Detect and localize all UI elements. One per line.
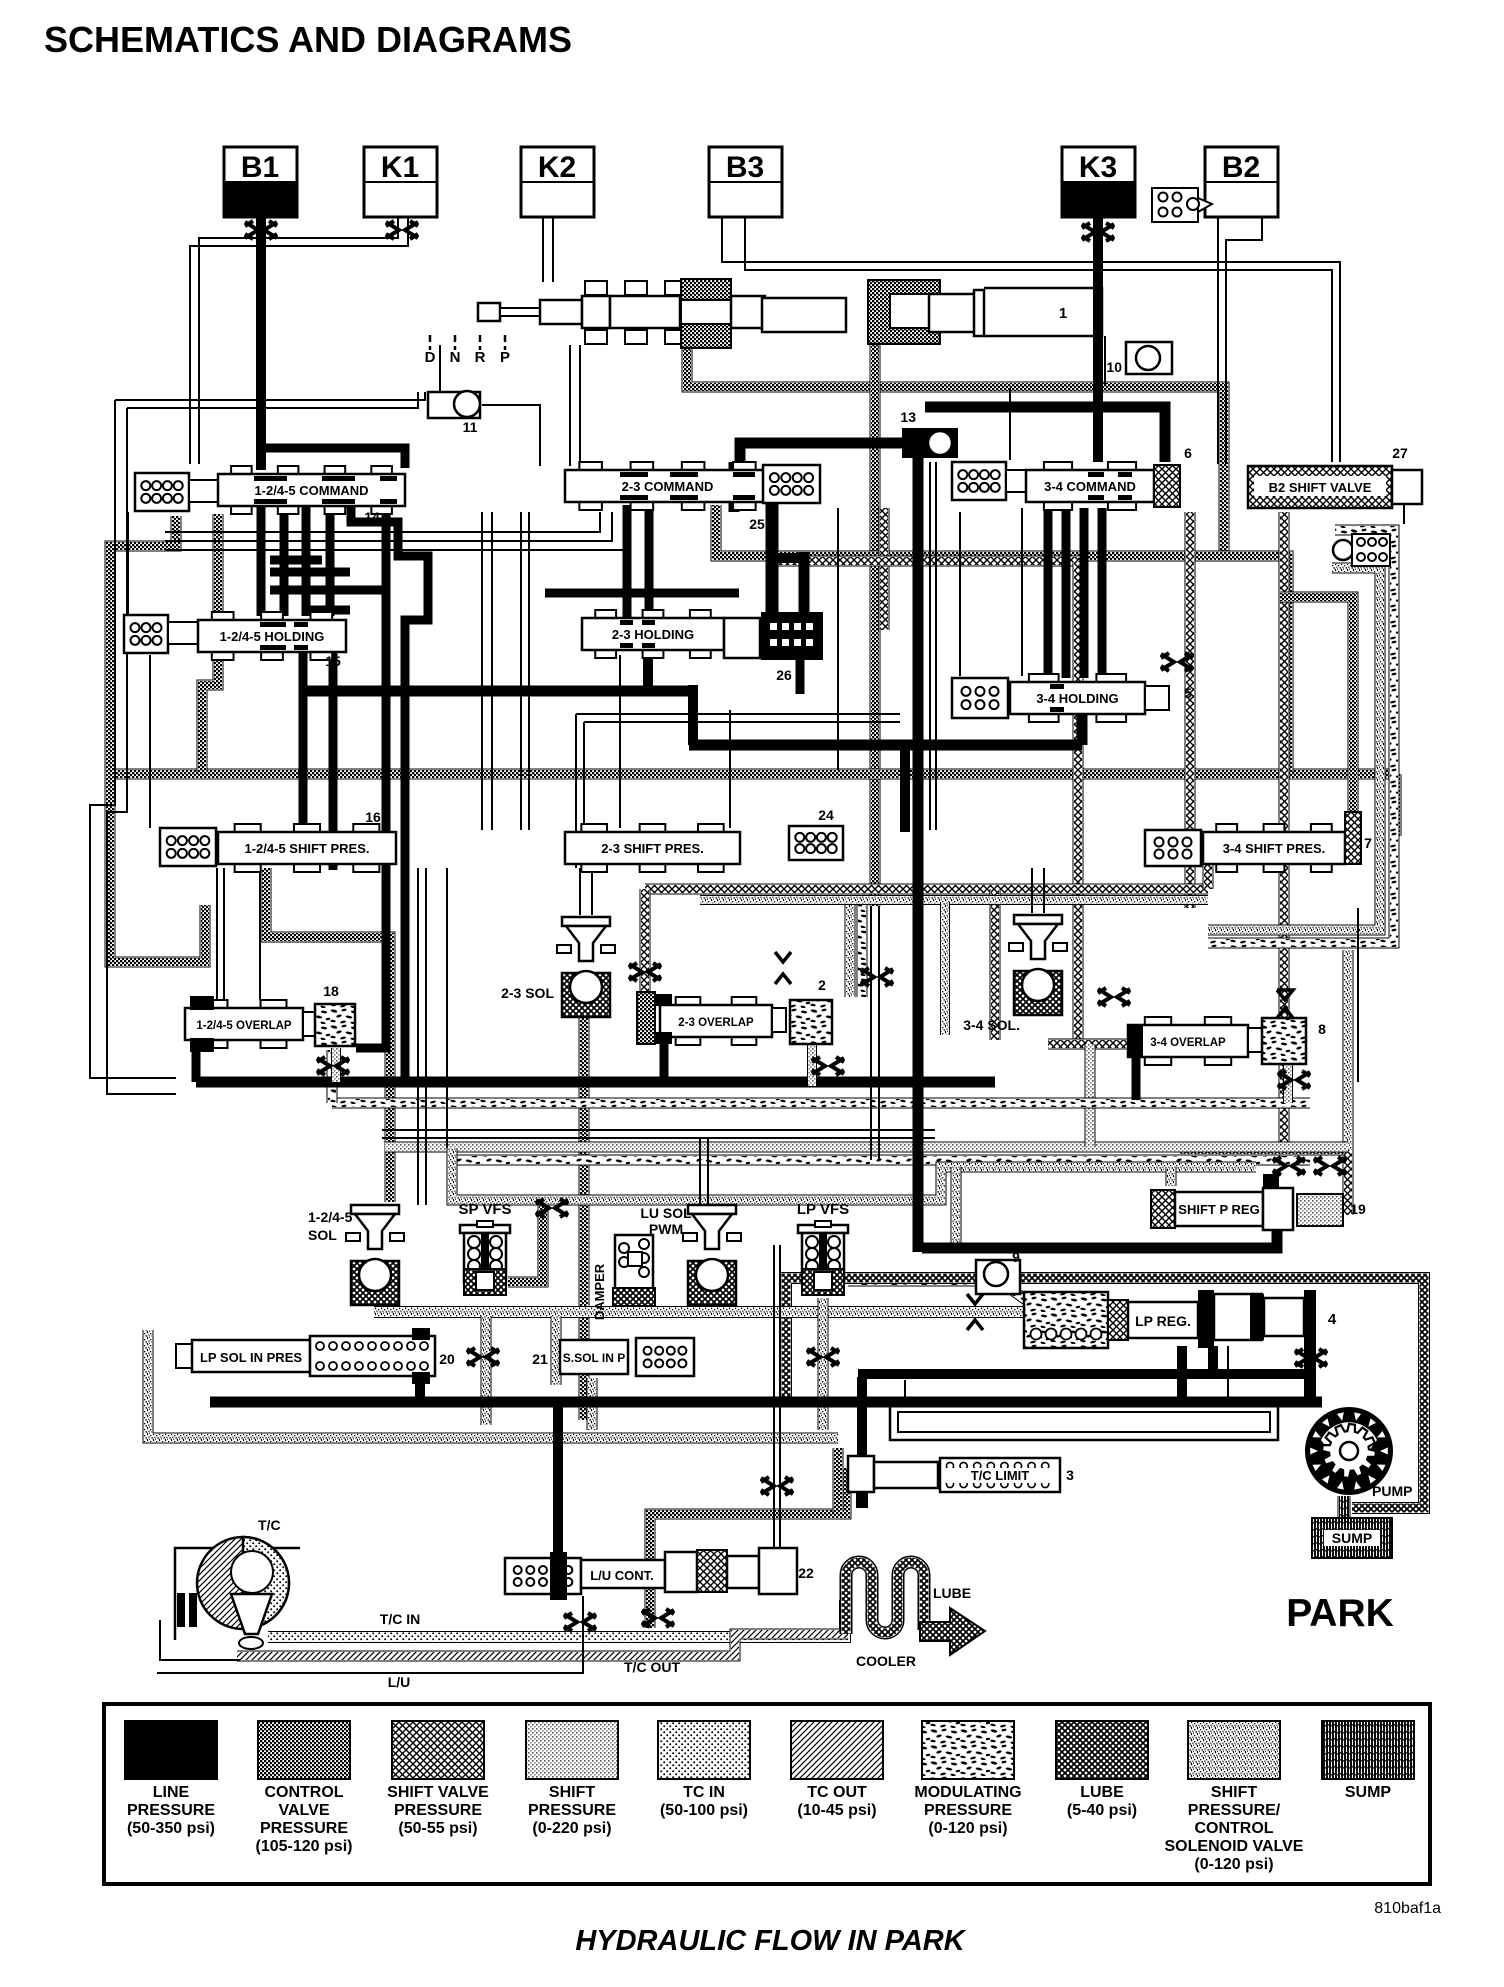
svg-text:LINE: LINE (153, 1784, 190, 1801)
wire thin pairs above solenoid funnels (580, 868, 1044, 986)
svg-text:PRESSURE: PRESSURE (127, 1802, 215, 1819)
check ball 9 (967, 1249, 1020, 1330)
legend swatch CONTROL (256, 1721, 353, 1855)
svg-text:4: 4 (1328, 1311, 1337, 1328)
legend swatch SHIFT VALVE (387, 1721, 489, 1837)
valve 1-2/4-5 OVERLAP (185, 983, 355, 1075)
figure code (1374, 1900, 1441, 1917)
svg-text:S.SOL IN P: S.SOL IN P (563, 1351, 625, 1365)
svg-text:T/C IN: T/C IN (380, 1611, 420, 1627)
orifice on svp left vertical (629, 963, 661, 981)
wire gray verticals below solenoids (486, 1298, 823, 1430)
svg-text:3-4 OVERLAP: 3-4 OVERLAP (1150, 1037, 1226, 1049)
svg-text:PUMP: PUMP (1372, 1483, 1412, 1499)
valve 3-4 HOLDING (952, 653, 1193, 722)
valve 2-3 COMMAND (565, 462, 820, 532)
svg-text:P: P (500, 349, 510, 366)
wire shift-valve-pressure right vertical (1279, 512, 1290, 1150)
svg-text:2-3 SHIFT PRES.: 2-3 SHIFT PRES. (601, 841, 704, 856)
svg-text:8: 8 (1318, 1021, 1326, 1037)
caption (575, 1925, 966, 1957)
svg-text:1: 1 (1059, 305, 1067, 322)
wire centre thin verticals (620, 462, 960, 830)
valve 3-4 COMMAND (952, 445, 1192, 510)
clutch B2 (1205, 147, 1278, 217)
wire manual valve to junction 11 (440, 336, 1105, 466)
PARK label (1286, 1592, 1394, 1635)
valve 2-3 OVERLAP (637, 952, 844, 1075)
svg-text:(10-45 psi): (10-45 psi) (797, 1802, 876, 1819)
svg-text:LP REG.: LP REG. (1135, 1313, 1191, 1329)
cooler (846, 1562, 985, 1669)
svg-text:L/U: L/U (388, 1674, 411, 1690)
svg-text:T/C: T/C (258, 1517, 281, 1533)
svg-text:TC IN: TC IN (683, 1784, 725, 1801)
valve L/U CONT (505, 1548, 814, 1631)
svg-text:2: 2 (818, 977, 826, 993)
svg-text:25: 25 (749, 516, 765, 532)
svg-text:14: 14 (364, 509, 380, 525)
valve LP SOL IN PRES (176, 1328, 499, 1384)
svg-text:3-4 SHIFT PRES.: 3-4 SHIFT PRES. (1223, 841, 1326, 856)
legend swatch SUMP (1322, 1721, 1414, 1801)
svg-text:24: 24 (818, 807, 834, 823)
svg-text:SOL: SOL (308, 1227, 337, 1243)
svg-text:27: 27 (1392, 445, 1408, 461)
legend swatch LINE (125, 1721, 217, 1837)
solenoid 1-2/4-5 SOL (308, 1205, 404, 1305)
wire gray solenoid supply manifold (374, 1306, 1060, 1318)
clutch K2 (521, 147, 594, 217)
svg-text:PRESSURE: PRESSURE (394, 1802, 482, 1819)
wire shift-pressure light horizontal (385, 1044, 1348, 1147)
svg-text:11: 11 (463, 419, 478, 435)
wire control-pressure right frame (1280, 597, 1353, 1150)
valve T/C LIMIT (838, 1448, 1074, 1512)
valve 1-2/4-5 SHIFT PRES (160, 809, 396, 872)
svg-text:(0-120 psi): (0-120 psi) (1194, 1856, 1273, 1873)
wire lube loop around LP REG (786, 1278, 1424, 1508)
svg-text:R: R (475, 349, 486, 366)
svg-text:B3: B3 (726, 151, 764, 184)
svg-text:B1: B1 (241, 151, 279, 184)
wire line-pressure comb under 3-4 command (1048, 508, 1102, 678)
svg-text:LU SOL: LU SOL (640, 1205, 692, 1221)
valve B2 SHIFT VALVE (1248, 445, 1422, 508)
wire gray mid horizontal (700, 900, 1208, 1035)
svg-text:HYDRAULIC FLOW IN PARK: HYDRAULIC FLOW IN PARK (575, 1925, 966, 1957)
wire thin staircase left of 2-3 command (165, 512, 624, 550)
svg-text:PRESSURE: PRESSURE (528, 1802, 616, 1819)
solenoid 3-4 SOL (963, 915, 1067, 1033)
wire line-pressure main bottom bus (210, 1290, 1322, 1560)
wire line-pressure K3 drop (1093, 217, 1103, 462)
svg-text:6: 6 (1184, 445, 1192, 461)
wire modulating second horizontal (452, 1155, 1310, 1166)
svg-text:T/C LIMIT: T/C LIMIT (971, 1468, 1030, 1483)
svg-text:13: 13 (900, 409, 916, 425)
wire shift-valve-pressure near shift p reg (1180, 1150, 1348, 1215)
ball valve 10 (1106, 342, 1172, 375)
wire line-pressure junction 13 network (740, 407, 1165, 1252)
svg-text:2-3 COMMAND: 2-3 COMMAND (622, 479, 714, 494)
svg-text:15: 15 (325, 653, 341, 669)
wire right thin verticals (1358, 500, 1404, 1082)
wire tc-in pipe (268, 1600, 845, 1637)
svg-text:26: 26 (776, 667, 792, 683)
gear selector DNRP (425, 335, 510, 366)
wire control-pressure port drop left (202, 514, 218, 772)
wire line-pressure overlap row horizontal (196, 1040, 995, 1084)
svg-text:SHIFT VALVE: SHIFT VALVE (387, 1784, 489, 1801)
wire B2 drops (1218, 216, 1262, 464)
valve 1-2/4-5 COMMAND (135, 466, 405, 525)
solenoid LU SOL PWM (640, 1205, 741, 1305)
wire L/U line (157, 1596, 583, 1690)
svg-text:DAMPER: DAMPER (592, 1263, 607, 1320)
svg-text:B2 SHIFT VALVE: B2 SHIFT VALVE (1269, 480, 1372, 495)
junction 11 ball valve (428, 391, 480, 435)
legend swatch TC OUT (791, 1721, 883, 1819)
svg-text:2-3 OVERLAP: 2-3 OVERLAP (678, 1017, 754, 1029)
svg-text:PRESSURE/: PRESSURE/ (1188, 1802, 1281, 1819)
svg-text:SHIFT: SHIFT (1211, 1784, 1257, 1801)
svg-text:(105-120 psi): (105-120 psi) (256, 1838, 353, 1855)
svg-text:N: N (450, 349, 461, 366)
wire control-pressure 2-3 SOL drop (579, 1012, 590, 1420)
svg-text:19: 19 (1350, 1201, 1366, 1217)
wire thin right of LP REG (905, 1346, 1228, 1402)
clutch K1 (364, 147, 437, 239)
svg-text:COOLER: COOLER (856, 1653, 916, 1669)
svg-text:PWM: PWM (649, 1221, 683, 1237)
legend swatch TC IN (658, 1721, 750, 1819)
valve S.SOL IN P (532, 1338, 694, 1376)
svg-text:(0-120 psi): (0-120 psi) (928, 1820, 1007, 1837)
legend box (104, 1704, 1430, 1884)
wire gray right frame (850, 568, 1380, 997)
solenoid 2-3 SOL (501, 917, 615, 1017)
wire control-pressure upper horizontal (716, 505, 1288, 772)
svg-text:10: 10 (1106, 359, 1122, 375)
svg-text:D: D (425, 349, 436, 366)
wire line-pressure B1 drop (259, 217, 405, 470)
wire line-pressure shift p reg output (922, 1230, 1277, 1248)
wire thin frames around 2-3 shift pres (576, 714, 900, 868)
svg-text:MODULATING: MODULATING (914, 1784, 1021, 1801)
wire modulating LP VFS to ball 9 (848, 1281, 1026, 1300)
wire control-pressure SP VFS feed (508, 1198, 543, 1282)
svg-text:21: 21 (532, 1351, 548, 1367)
legend swatch SHIFT (526, 1721, 618, 1837)
wire line-pressure long mid horizontal (303, 685, 1082, 832)
svg-text:(50-350 psi): (50-350 psi) (127, 1820, 215, 1837)
svg-text:PRESSURE: PRESSURE (924, 1802, 1012, 1819)
valve 2-3 SHIFT PRES (565, 807, 843, 872)
clutch B1 (224, 147, 297, 239)
svg-text:SOLENOID VALVE: SOLENOID VALVE (1165, 1838, 1304, 1855)
wire tc-out pipe (237, 1634, 848, 1656)
legend swatch LUBE (1056, 1721, 1148, 1819)
svg-text:PRESSURE: PRESSURE (260, 1820, 348, 1837)
wire K2 down to manual valve (543, 216, 553, 282)
wire thin pair left of LP VFS (761, 1245, 793, 1550)
svg-text:SP VFS: SP VFS (458, 1201, 511, 1218)
svg-text:L/U CONT.: L/U CONT. (590, 1568, 654, 1583)
svg-text:CONTROL: CONTROL (1194, 1820, 1273, 1837)
svg-text:1-2/4-5: 1-2/4-5 (308, 1209, 353, 1225)
wire left big frame (90, 392, 425, 1094)
svg-text:LP SOL IN PRES: LP SOL IN PRES (200, 1350, 302, 1365)
valve 1-2/4-5 HOLDING (124, 612, 346, 669)
svg-text:VALVE: VALVE (279, 1802, 330, 1819)
wire left inner verticals (128, 512, 260, 1005)
valve 3-4 SHIFT PRES (1145, 812, 1372, 872)
junction 26 (761, 612, 823, 683)
wire shift-pressure overlap drain (336, 1044, 1288, 1103)
wire thin pair above solenoid row (382, 868, 935, 1205)
clutch K3 (1062, 147, 1135, 241)
svg-text:K1: K1 (381, 151, 419, 184)
svg-text:LP VFS: LP VFS (797, 1201, 849, 1218)
valve 3-4 OVERLAP (1098, 988, 1326, 1089)
svg-text:(50-55 psi): (50-55 psi) (398, 1820, 477, 1837)
legend swatch SHIFT (1165, 1721, 1304, 1873)
svg-text:(5-40 psi): (5-40 psi) (1067, 1802, 1137, 1819)
wire control-pressure long horizontal (110, 774, 1396, 836)
svg-text:K2: K2 (538, 151, 576, 184)
svg-text:(0-220 psi): (0-220 psi) (532, 1820, 611, 1837)
svg-text:LUBE: LUBE (933, 1585, 971, 1601)
svg-text:1-2/4-5 SHIFT PRES.: 1-2/4-5 SHIFT PRES. (245, 841, 370, 856)
title (44, 19, 572, 60)
svg-text:3-4 SOL.: 3-4 SOL. (963, 1017, 1020, 1033)
svg-text:16: 16 (365, 809, 381, 825)
svg-text:3: 3 (1066, 1467, 1074, 1483)
svg-text:2-3 SOL: 2-3 SOL (501, 985, 554, 1001)
svg-text:1-2/4-5 OVERLAP: 1-2/4-5 OVERLAP (196, 1020, 292, 1032)
wire control-pressure left border vertical (110, 516, 205, 962)
svg-text:B2: B2 (1222, 151, 1260, 184)
svg-text:1-2/4-5 COMMAND: 1-2/4-5 COMMAND (254, 483, 368, 498)
svg-text:T/C OUT: T/C OUT (624, 1659, 680, 1675)
wire shift-valve-pressure vertical left of 3-4 shift pres (1185, 512, 1196, 908)
wire line-pressure comb under 1-2/4-5 command (261, 505, 428, 1082)
svg-text:9: 9 (1012, 1249, 1020, 1265)
solenoid SP VFS (458, 1199, 568, 1295)
svg-text:PARK: PARK (1286, 1592, 1394, 1635)
wire B3 to right side (722, 216, 1340, 462)
valve 2-3 HOLDING (582, 610, 760, 658)
ball port box under B2 shift valve (1333, 534, 1390, 566)
svg-text:2-3 HOLDING: 2-3 HOLDING (612, 627, 694, 642)
svg-text:K3: K3 (1079, 151, 1117, 184)
svg-text:1-2/4-5 HOLDING: 1-2/4-5 HOLDING (220, 629, 325, 644)
svg-text:22: 22 (798, 1565, 814, 1581)
clutch B3 (709, 147, 782, 217)
wire control-pressure manual valve drain (687, 308, 1224, 556)
wire K1 to left manifold (190, 216, 408, 464)
suction pipe outline (890, 1404, 1278, 1440)
svg-text:810baf1a: 810baf1a (1374, 1900, 1441, 1917)
svg-text:SCHEMATICS AND DIAGRAMS: SCHEMATICS AND DIAGRAMS (44, 19, 572, 60)
svg-text:20: 20 (439, 1351, 455, 1367)
svg-text:3-4 HOLDING: 3-4 HOLDING (1036, 691, 1118, 706)
wire under command valves (482, 388, 1022, 830)
svg-text:SHIFT P REG: SHIFT P REG (1178, 1202, 1259, 1217)
pump (1306, 1408, 1412, 1499)
svg-text:SUMP: SUMP (1345, 1784, 1392, 1801)
manual valve assembly (478, 279, 1102, 348)
wire line-pressure comb under 2-3 command (545, 462, 804, 694)
svg-text:5: 5 (1184, 685, 1192, 701)
torque converter T/C (160, 1517, 680, 1675)
svg-text:7: 7 (1364, 835, 1372, 851)
svg-text:18: 18 (323, 983, 339, 999)
svg-text:SUMP: SUMP (1332, 1530, 1372, 1546)
svg-text:3-4 COMMAND: 3-4 COMMAND (1044, 479, 1136, 494)
valve SHIFT P REG (1151, 1157, 1366, 1230)
wire control-pressure vertical from manual valve (870, 344, 881, 906)
svg-text:SHIFT: SHIFT (549, 1784, 595, 1801)
sump (1312, 1496, 1392, 1558)
relief valve near B2 (1152, 188, 1212, 222)
wire control-pressure staircase to solenoid (266, 868, 390, 1202)
svg-text:TC OUT: TC OUT (807, 1784, 867, 1801)
damper (592, 1235, 655, 1320)
svg-text:(50-100 psi): (50-100 psi) (660, 1802, 748, 1819)
legend swatch MODULATING (914, 1721, 1021, 1837)
wire shift-valve-pressure centre network (645, 508, 1208, 1044)
solenoid LP VFS (797, 1201, 849, 1366)
wire modulating right frame (862, 530, 1394, 997)
svg-text:CONTROL: CONTROL (264, 1784, 343, 1801)
wire gray left riser and horizontal (148, 1330, 838, 1438)
valve LP REG (1024, 1290, 1337, 1367)
wire shift/control-solenoid gray feed to shift p reg (452, 1148, 1256, 1244)
wire modulating long horizontal (332, 1050, 1310, 1103)
svg-text:LUBE: LUBE (1080, 1784, 1124, 1801)
wire control-pressure T/C limit to L/U (650, 1468, 846, 1628)
